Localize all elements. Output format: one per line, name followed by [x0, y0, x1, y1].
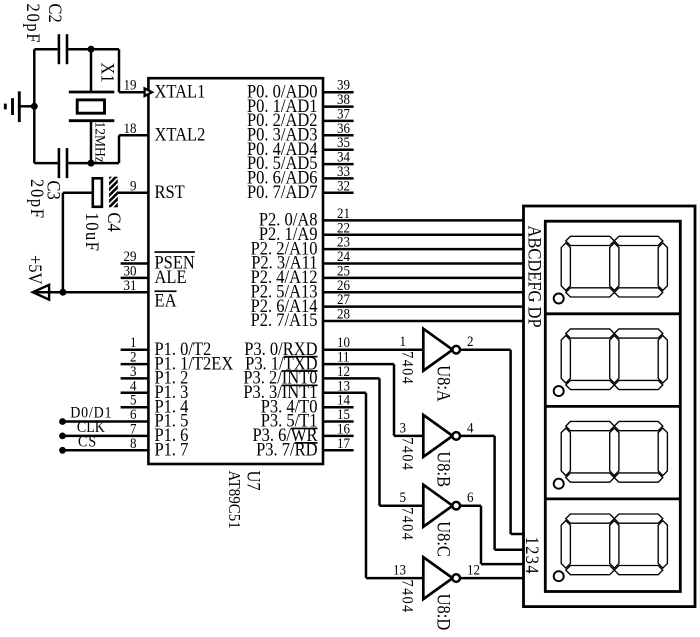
display outer box [524, 206, 696, 607]
wire RST pin 9 [118, 192, 149, 195]
inverter U8:C [423, 485, 452, 527]
svg-text:U7: U7 [243, 471, 264, 491]
svg-text:AT89C51: AT89C51 [225, 471, 243, 529]
wire C2 to node A [68, 48, 91, 51]
digit 4 seven-segment figure [566, 514, 615, 523]
wire XTAL2 pin 18 [119, 134, 148, 137]
svg-text:C4: C4 [104, 213, 125, 232]
crystal X1 bottom electrode [69, 119, 115, 122]
svg-text:RST: RST [155, 181, 186, 202]
inverter U8:A [423, 329, 452, 371]
svg-text:8: 8 [130, 435, 137, 451]
XTAL1 input arrow [145, 88, 152, 96]
wire P3.1 to U8:B [323, 363, 394, 366]
svg-text:U8:C: U8:C [433, 521, 454, 557]
svg-text:7404: 7404 [398, 437, 415, 471]
inverter U8:B [423, 415, 452, 457]
wire XTAL1 pin 19 [119, 91, 148, 94]
wire node A right [91, 48, 119, 51]
IC left pin stubs [121, 262, 149, 265]
wire top-left to C2 [34, 48, 57, 51]
svg-text:XTAL1: XTAL1 [155, 81, 206, 102]
display inner box [545, 221, 680, 591]
svg-text:1: 1 [399, 334, 406, 350]
svg-text:5: 5 [399, 490, 406, 506]
digit 1 seven-segment figure [566, 236, 615, 245]
svg-text:3: 3 [399, 420, 406, 436]
svg-text:7404: 7404 [398, 580, 415, 614]
wire C3 to node B [68, 162, 91, 165]
wire U8:C out to digit 3 [460, 504, 481, 507]
svg-text:P0. 7/AD7: P0. 7/AD7 [247, 181, 318, 202]
svg-text:XTAL2: XTAL2 [155, 124, 206, 145]
wire EA pin 31 [63, 291, 148, 294]
digit 3 decimal point [554, 479, 564, 489]
ground lead [19, 105, 34, 108]
digit 3 seven-segment figure [566, 421, 615, 430]
crystal X1 body [77, 100, 104, 113]
svg-text:ALE: ALE [155, 266, 187, 287]
IC right pin stubs [323, 91, 354, 94]
wire P3.2 to U8:C [323, 377, 380, 380]
svg-text:17: 17 [337, 435, 350, 451]
svg-text:P3. 7/RD: P3. 7/RD [256, 439, 317, 460]
digit 1 decimal point [554, 294, 564, 304]
wire CS [63, 449, 149, 452]
node B junction [88, 160, 95, 167]
digit 2 decimal point [554, 386, 564, 396]
svg-text:U8:A: U8:A [433, 365, 454, 402]
wire CLK [63, 435, 149, 438]
svg-text:7404: 7404 [398, 507, 415, 541]
+5V junction [59, 289, 66, 296]
svg-text:+5V: +5V [25, 255, 46, 285]
svg-text:12: 12 [467, 562, 480, 578]
svg-text:X1: X1 [97, 63, 118, 83]
svg-text:U8:D: U8:D [433, 594, 454, 631]
svg-text:28: 28 [337, 306, 350, 322]
svg-text:18: 18 [124, 120, 137, 136]
svg-text:1234: 1234 [522, 537, 543, 576]
svg-text:9: 9 [130, 178, 137, 194]
wire to C4 [63, 192, 93, 195]
svg-text:13: 13 [393, 562, 406, 578]
svg-text:7404: 7404 [398, 351, 415, 385]
svg-text:C2: C2 [45, 4, 66, 23]
wire up to XTAL2 [118, 135, 121, 163]
svg-text:19: 19 [124, 77, 137, 93]
svg-text:EA: EA [155, 290, 177, 311]
wire +5V vertical [62, 193, 65, 292]
capacitor C2 [58, 34, 61, 64]
left vertical wire [33, 49, 36, 163]
node A junction [88, 46, 95, 53]
P2 bus wires to display [323, 219, 524, 222]
svg-text:20pF: 20pF [23, 4, 44, 45]
wire bottom-left to C3 [34, 162, 57, 165]
svg-text:12MHz: 12MHz [91, 122, 108, 163]
wire P3.3 to U8:D [323, 392, 366, 395]
ground symbol [18, 91, 21, 122]
svg-text:6: 6 [467, 490, 474, 506]
svg-text:4: 4 [467, 420, 474, 436]
wire U8:A out to digit 1 [460, 348, 511, 351]
capacitor C4 plus plate [93, 178, 102, 207]
svg-text:U8:B: U8:B [433, 451, 454, 487]
digit 4 decimal point [554, 571, 564, 581]
svg-text:P1. 7: P1. 7 [155, 439, 189, 460]
wire node B right [91, 162, 119, 165]
svg-text:P2. 7/A15: P2. 7/A15 [251, 309, 318, 330]
inverter U8:D [423, 557, 452, 599]
ground junction [31, 103, 38, 110]
capacitor C4 minus plate (hatched) [109, 177, 118, 208]
wire down to XTAL1 [118, 49, 121, 92]
svg-text:20pF: 20pF [27, 179, 48, 220]
wire D0/D1 [63, 420, 149, 423]
+5V supply arrow [33, 285, 49, 300]
wire P3.0 to U8:A [323, 348, 423, 351]
svg-text:31: 31 [124, 277, 137, 293]
IC U7 AT89C51 body [148, 78, 323, 464]
wire U8:D out to digit 4 [460, 577, 524, 580]
digit 2 seven-segment figure [566, 329, 615, 338]
svg-text:2: 2 [467, 334, 474, 350]
svg-text:CS: CS [78, 434, 97, 451]
capacitor C3 [58, 148, 61, 178]
svg-text:10uF: 10uF [82, 213, 103, 253]
svg-text:32: 32 [337, 178, 350, 194]
wire U8:B out to digit 2 [460, 435, 495, 438]
svg-text:ABCDEFG DP: ABCDEFG DP [524, 226, 545, 328]
crystal X1 top electrode [90, 49, 93, 91]
display cell dividers [545, 312, 680, 315]
